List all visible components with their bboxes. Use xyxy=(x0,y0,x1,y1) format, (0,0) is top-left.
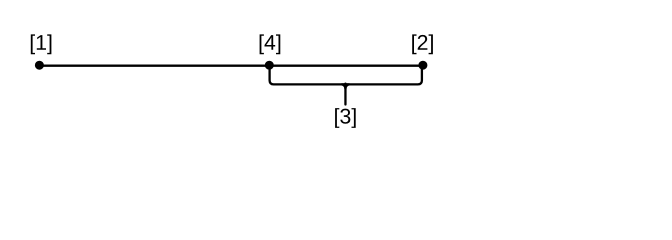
label [1] xyxy=(31,34,52,54)
label [4] xyxy=(260,34,281,54)
node [4] xyxy=(265,61,274,70)
bracket middle tick stem pointing to label [3] xyxy=(344,84,346,105)
label [2] xyxy=(412,34,433,54)
label [3] xyxy=(335,108,356,128)
node [2] xyxy=(418,61,427,70)
wire main line from node [1] through node [4] to node [2] xyxy=(39,65,423,67)
node [1] xyxy=(35,61,44,70)
bracket middle tick fillet flare xyxy=(341,83,349,89)
bracket under segment [4]-[2] xyxy=(270,69,422,85)
